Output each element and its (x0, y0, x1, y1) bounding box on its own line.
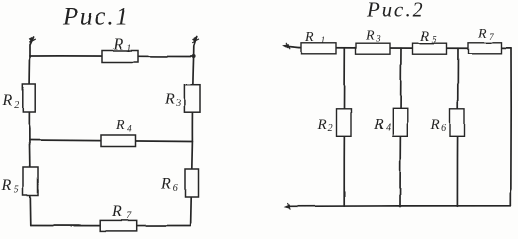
resistor R4 fig1 (101, 135, 136, 147)
wire fig1 middle (29, 140, 192, 142)
resistor R4 fig2 (393, 109, 408, 137)
wire fig2 bottom rail (288, 205, 511, 208)
wire fig1 right rail (191, 57, 194, 226)
wire fig2 drop to R6 (456, 48, 459, 206)
svg-text:R1: R1 (112, 36, 131, 55)
label Рис.2 (366, 0, 424, 22)
svg-text:R3: R3 (365, 29, 381, 44)
terminal arrow fig1 right (193, 37, 199, 57)
svg-text:R5: R5 (419, 30, 437, 45)
label R1 fig1 (112, 36, 131, 55)
resistor R5 fig1 (23, 167, 38, 195)
terminal arrow fig2 bottom-left (285, 203, 291, 209)
terminal arrow fig1 left (29, 37, 35, 56)
label R6 fig2 (430, 117, 447, 134)
wire fig2 right rail (510, 48, 512, 205)
resistor R1 fig1 (102, 51, 138, 63)
resistor R3 fig2 (356, 43, 390, 54)
label R5 fig2 (419, 30, 437, 45)
svg-text:R6: R6 (430, 117, 447, 134)
label R4 fig2 (373, 117, 391, 134)
svg-text:R6: R6 (160, 176, 178, 195)
svg-text:R2: R2 (2, 92, 20, 111)
resistor R6 fig2 (450, 109, 465, 137)
label R7 fig2 (477, 27, 494, 42)
label R4 fig1 (115, 118, 132, 134)
resistor R2 fig2 (337, 109, 352, 137)
label R3 fig1 (164, 91, 181, 110)
wire fig1 top (30, 55, 194, 58)
label R2 fig1 (2, 92, 20, 111)
wire fig1 left rail (29, 56, 30, 226)
svg-text:R4: R4 (115, 118, 132, 134)
wire fig1 bottom (31, 224, 191, 226)
svg-text:R3: R3 (164, 91, 181, 110)
node fig2 bottom junction c (456, 205, 458, 207)
svg-text:R4: R4 (373, 117, 391, 134)
svg-text:R5: R5 (1, 177, 19, 196)
label Рис.1 (62, 4, 131, 31)
label R1 fig2 (304, 30, 325, 45)
node fig2 bottom junction b (399, 205, 402, 208)
label R7 fig1 (111, 203, 132, 222)
resistor R7 fig2 (468, 43, 502, 54)
node fig1 top-right junction (192, 55, 196, 59)
terminal arrow fig2 top-left (283, 43, 299, 49)
wire fig2 drop to R4 (400, 48, 401, 206)
resistor R7 fig1 (100, 220, 137, 231)
svg-text:Рис.1: Рис.1 (62, 4, 131, 31)
resistor R5 fig2 (413, 43, 447, 54)
resistor R2 fig1 (23, 84, 35, 112)
resistor R1 fig2 (301, 43, 336, 54)
wire fig2 drop to R2 (343, 48, 346, 206)
label R6 fig1 (160, 176, 178, 195)
label R3 fig2 (365, 29, 381, 44)
label R2 fig2 (317, 117, 333, 134)
svg-text:R7: R7 (111, 203, 132, 222)
resistor R6 fig1 (185, 169, 199, 197)
resistor R3 fig1 (184, 85, 200, 113)
svg-text:R2: R2 (317, 117, 333, 134)
label R5 fig1 (1, 177, 19, 196)
wire fig2 top rail (299, 47, 511, 50)
svg-text:Рис.2: Рис.2 (366, 0, 424, 22)
svg-text:R7: R7 (477, 27, 494, 42)
